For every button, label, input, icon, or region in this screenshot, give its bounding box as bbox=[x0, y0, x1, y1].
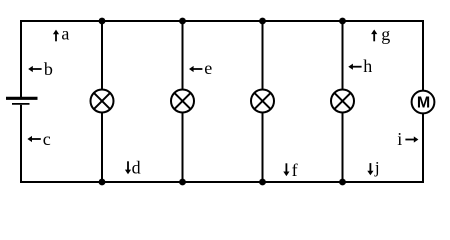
lamp L2 bbox=[171, 90, 194, 113]
svg-text:d: d bbox=[132, 158, 141, 178]
current label e bbox=[189, 58, 212, 78]
wire branch 3 upper bbox=[262, 21, 264, 90]
node junction dot top 1 bbox=[99, 18, 106, 25]
current label h bbox=[348, 56, 372, 76]
wire right lower (motor to bottom bus) bbox=[422, 113, 424, 183]
wire branch 1 lower bbox=[101, 112, 103, 182]
current label f bbox=[283, 160, 297, 180]
wire branch 2 upper bbox=[182, 21, 184, 90]
wire left lower (battery to bottom bus) bbox=[20, 105, 22, 183]
svg-text:h: h bbox=[363, 56, 372, 76]
wire branch 3 lower bbox=[262, 112, 264, 182]
wire branch 2 lower bbox=[182, 112, 184, 182]
motor M1 bbox=[412, 91, 435, 114]
current label c bbox=[27, 129, 50, 149]
current label i bbox=[397, 129, 418, 149]
node junction dot top 3 bbox=[259, 18, 266, 25]
svg-text:M: M bbox=[417, 95, 430, 112]
node junction dot bottom 3 bbox=[259, 179, 266, 186]
node junction dot bottom 2 bbox=[179, 179, 186, 186]
lamp L1 bbox=[91, 90, 114, 113]
svg-text:i: i bbox=[397, 129, 402, 149]
node junction dot top 2 bbox=[179, 18, 186, 25]
node junction dot top 4 bbox=[339, 18, 346, 25]
wire left upper (battery to top bus) bbox=[20, 20, 22, 97]
battery B1 bbox=[6, 98, 38, 104]
node junction dot bottom 1 bbox=[99, 179, 106, 186]
svg-text:j: j bbox=[374, 158, 380, 177]
wire right upper (top bus to motor) bbox=[422, 20, 424, 91]
wire branch 4 lower bbox=[342, 112, 344, 182]
svg-text:f: f bbox=[292, 160, 298, 180]
svg-text:b: b bbox=[44, 59, 53, 79]
node junction dot bottom 4 bbox=[339, 179, 346, 186]
svg-text:e: e bbox=[204, 58, 212, 78]
wire branch 4 upper bbox=[342, 21, 344, 90]
lamp L4 bbox=[331, 90, 354, 113]
current label g bbox=[371, 24, 390, 44]
wire bottom bus bbox=[21, 181, 423, 183]
svg-text:c: c bbox=[43, 129, 51, 149]
current label j bbox=[367, 158, 379, 177]
lamp L3 bbox=[251, 90, 274, 113]
wire branch 1 upper bbox=[101, 21, 103, 90]
wire top bus bbox=[21, 20, 423, 22]
current label b bbox=[28, 59, 53, 79]
svg-text:g: g bbox=[381, 24, 390, 44]
svg-text:a: a bbox=[61, 24, 69, 44]
current label a bbox=[53, 24, 70, 44]
current label d bbox=[125, 158, 141, 178]
